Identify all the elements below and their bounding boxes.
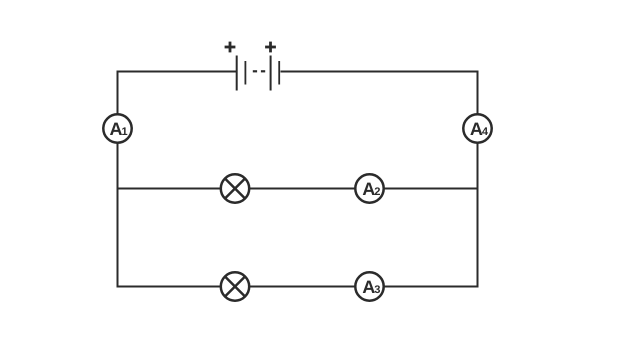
lamp L1 cross [225,178,245,198]
label A4 [470,123,488,135]
wire middle branch [118,188,478,190]
ammeter A1 circle [103,114,131,142]
battery B1 right cell long plate [270,56,272,91]
label A2 [363,183,380,195]
battery B1 left cell long plate [236,56,238,91]
battery B1 right cell short plate [278,61,280,85]
lamp L2 circle [221,272,249,300]
label A1 [110,123,127,135]
battery dashes (omitted cells) [253,70,265,72]
polarity + right [265,42,276,53]
lamp L1 circle [221,174,249,202]
label A3 [363,281,380,294]
polarity + left [225,42,236,53]
wire outer loop (top, left, bottom, right) with battery gap [118,72,478,287]
ammeter A2 circle [355,174,383,202]
battery B1 left cell short plate [244,61,246,85]
ammeter A4 circle [463,114,491,142]
lamp L2 cross [225,276,245,296]
ammeter A3 circle [355,272,383,300]
